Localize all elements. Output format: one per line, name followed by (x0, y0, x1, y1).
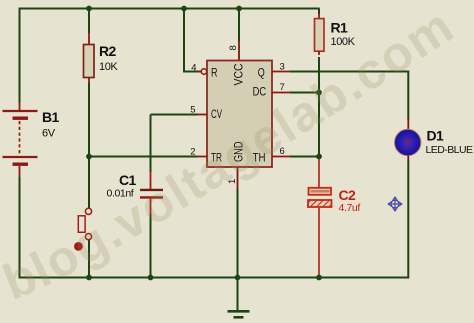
origin marker (388, 197, 402, 211)
node C2 bus (316, 275, 322, 281)
svg-text:10K: 10K (99, 61, 118, 73)
pin 8 stub (238, 40, 240, 60)
wire TR junction to button (88, 157, 90, 209)
wire bottom bus (19, 277, 409, 279)
pin 7 stub (272, 92, 291, 94)
IC U1 555 timer body (207, 61, 272, 168)
wire top bus (19, 8, 320, 10)
node ground bus (235, 275, 241, 281)
pin 3 stub (272, 71, 291, 73)
svg-text:LED-BLUE: LED-BLUE (426, 144, 473, 156)
node button bus (86, 275, 92, 281)
wire button to bottom bus (88, 240, 90, 278)
wire DC to R1 column (290, 92, 319, 94)
resistor R1 (315, 9, 325, 189)
node R2 top (86, 6, 92, 12)
wire Q to LED column (290, 72, 408, 120)
svg-text:R1: R1 (331, 20, 349, 36)
svg-text:3: 3 (280, 62, 285, 73)
wire pin1 to ground bus (237, 189, 239, 278)
svg-text:CV: CV (211, 109, 222, 121)
pin 2 stub (197, 156, 208, 158)
wire C1 bottom to bus (150, 214, 152, 278)
pin R bubble (201, 69, 206, 74)
wire CV (151, 114, 198, 116)
wire left vertical (19, 9, 21, 104)
svg-text:4: 4 (191, 63, 196, 74)
node C1 bus (148, 275, 154, 281)
resistor R2 (84, 9, 95, 85)
battery B1 (3, 102, 38, 178)
svg-text:8: 8 (228, 45, 239, 50)
LED D1 (395, 118, 421, 162)
svg-text:R2: R2 (99, 43, 117, 59)
svg-text:7: 7 (280, 82, 285, 93)
capacitor C1 (140, 115, 163, 216)
wire LED to bottom bus (407, 161, 409, 279)
node R2 TR (86, 154, 92, 160)
svg-text:DC: DC (253, 87, 267, 99)
svg-text:B1: B1 (42, 109, 60, 125)
svg-text:VCC: VCC (234, 64, 246, 86)
svg-text:C2: C2 (339, 187, 357, 203)
wire R2 bottom to TR junction (88, 83, 90, 157)
pin 6 stub (272, 156, 291, 158)
pin 5 stub (197, 114, 208, 116)
pin 1 stub (237, 167, 239, 190)
svg-text:6V: 6V (42, 128, 56, 140)
node DC R1 (316, 90, 322, 96)
wire TH to C2 junction (290, 156, 319, 158)
node reset drop (181, 6, 187, 12)
capacitor C2 (308, 188, 332, 278)
svg-text:100K: 100K (331, 36, 356, 48)
pin 4 stub (197, 71, 202, 73)
svg-text:D1: D1 (427, 127, 445, 143)
wire TR (89, 156, 198, 158)
wire left lower vertical (19, 177, 21, 279)
node TH C2 (316, 154, 322, 160)
push button (74, 208, 92, 251)
svg-text:Q: Q (258, 67, 265, 79)
wire VCC pin8 drop (238, 9, 240, 42)
wire reset drop from top bus (184, 9, 201, 72)
svg-text:4.7uf: 4.7uf (339, 202, 361, 214)
svg-text:R: R (211, 67, 218, 79)
node VCC drop (236, 6, 242, 12)
ground (228, 278, 250, 318)
